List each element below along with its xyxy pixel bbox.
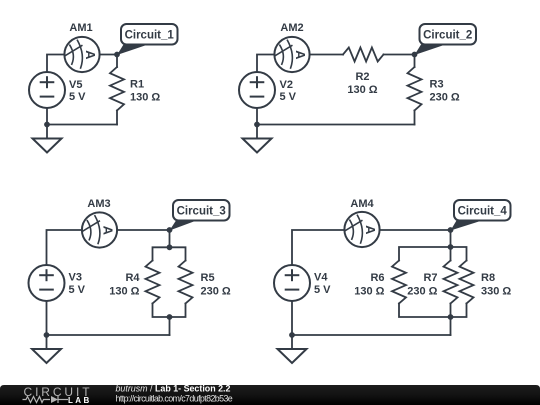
svg-text:A: A [363,225,378,235]
resistor R7 [444,261,458,304]
logo wordmark LAB [68,396,92,405]
svg-text:130 Ω: 130 Ω [354,286,384,298]
svg-text:http://circuitlab.com/c7dufpt8: http://circuitlab.com/c7dufpt82b53e [116,394,233,404]
wire parallel top rail circuit 3 [153,247,186,260]
label R1 130 ohm [130,79,160,104]
ground (circuit 2) [243,139,272,153]
wire AM1 right to node Circuit_1 [100,54,117,56]
wire parallel bottom rail circuit 4 [399,304,467,318]
svg-text:Circuit_2: Circuit_2 [423,30,472,42]
ammeter AM4 [344,212,379,247]
resistor R3 [408,67,422,111]
wire parallel combo down to bottom rail [450,317,452,335]
wire V4 bottom to ground [291,301,293,349]
wire node to R3 top [414,55,416,68]
label Circuit_4 text [458,206,508,218]
wire AM2 right to R2 left [310,54,343,56]
svg-text:R8: R8 [481,272,495,284]
ammeter AM3 letter A [100,226,115,236]
wire V2 bottom to ground junction [256,108,258,139]
svg-text:AM2: AM2 [280,22,303,34]
label V2 5 V [280,79,297,103]
wire node down to parallel top rail [169,230,171,247]
wire V3 bottom to ground [46,301,48,349]
wire parallel top rail circuit 4 [399,247,467,261]
resistor R5 [179,261,193,304]
footer attribution line [116,384,231,394]
wire V4 top to AM4 left [292,230,344,265]
junction dot parallel bottom circuit 4 [448,314,454,320]
wire parallel bottom rail circuit 3 [153,304,186,318]
node Circuit_4 junction dot [448,227,454,233]
resistor R6 [392,261,406,304]
svg-text:V4: V4 [314,272,328,284]
voltage source V2 [239,72,275,108]
junction dot parallel top circuit 3 [167,244,173,250]
wire AM3 right to node Circuit_3 [117,229,169,231]
svg-text:130 Ω: 130 Ω [347,84,377,96]
svg-text:5 V: 5 V [69,91,86,103]
svg-text:V5: V5 [69,79,82,91]
CircuitLab logo wordmark CIRCUIT [24,385,93,399]
junction dot V5-ground [44,122,50,128]
svg-text:A: A [100,226,115,236]
ammeter AM1 letter A [83,50,98,60]
svg-text:130 Ω: 130 Ω [130,92,160,104]
label R3 230 ohm [430,79,460,104]
logo resistor-diode squiggle [23,396,69,403]
svg-text:Circuit_1: Circuit_1 [125,30,175,42]
svg-text:R6: R6 [370,272,384,284]
junction dot V4-ground [289,332,295,338]
svg-text:330 Ω: 330 Ω [481,286,511,298]
wire V3 top to AM3 left [47,230,82,265]
label AM3 [87,198,110,210]
svg-text:R7: R7 [423,272,437,284]
svg-text:V3: V3 [69,272,82,284]
ammeter AM3 [82,212,117,247]
wire bottom rail circuit 1 [47,124,117,126]
wire R7 top lead [450,247,452,261]
node label callout Circuit_2 [415,24,477,55]
svg-text:V2: V2 [280,79,293,91]
wire node to R1 top [116,55,118,68]
label R7 230 ohm [407,272,437,298]
footer bar [0,385,540,405]
resistor R8 [460,261,474,304]
label R2 130 ohm [347,71,377,96]
svg-text:AM3: AM3 [87,198,110,210]
wire V5 bottom to ground junction [46,108,48,139]
label V3 5 V [69,272,86,297]
wire R1 bottom to bottom rail [116,111,118,125]
node label callout Circuit_4 [451,200,511,231]
wire bottom rail circuit 3 [47,334,170,336]
svg-text:Circuit_4: Circuit_4 [458,206,508,218]
svg-text:R3: R3 [430,79,444,91]
wire V2 top to AM2 left [257,55,274,73]
ground (circuit 3) [32,349,61,363]
svg-text:AM1: AM1 [69,22,92,34]
ammeter AM2 letter A [293,50,308,60]
voltage source V4 [274,265,310,301]
voltage source V3 [29,265,65,301]
svg-text:A: A [293,50,308,60]
node Circuit_1 junction dot [114,52,120,58]
footer url line [116,394,233,404]
junction dot V3-ground [44,332,50,338]
svg-text:230 Ω: 230 Ω [407,286,437,298]
svg-text:LAB: LAB [68,396,92,405]
svg-text:230 Ω: 230 Ω [201,286,231,298]
svg-text:R4: R4 [125,272,140,284]
node label callout Circuit_1 [117,24,178,55]
node Circuit_2 junction dot [412,52,418,58]
label R6 130 ohm [354,272,384,298]
wire parallel combo down to bottom rail [169,317,171,335]
label R8 330 ohm [481,272,511,298]
resistor R4 [146,261,160,304]
label Circuit_2 text [423,30,472,42]
svg-text:5 V: 5 V [314,284,331,296]
svg-text:R2: R2 [355,71,369,83]
svg-text:5 V: 5 V [69,284,86,296]
svg-text:130 Ω: 130 Ω [109,286,139,298]
resistor R1 [110,67,124,111]
wire bottom rail circuit 4 [292,334,451,336]
svg-text:Circuit_3: Circuit_3 [177,206,226,218]
label AM4 [350,198,374,210]
junction dot parallel top circuit 4 [448,244,454,250]
label R5 230 ohm [201,272,231,298]
junction dot parallel bottom circuit 3 [167,314,173,320]
ammeter AM4 letter A [363,225,378,235]
svg-text:230 Ω: 230 Ω [430,92,460,104]
label V5 5 V [69,79,86,103]
wire V5 top to AM1 left [47,55,64,73]
wire R2 right to node Circuit_2 [384,54,415,56]
wire bottom rail circuit 2 [257,124,415,126]
svg-text:R5: R5 [201,272,215,284]
svg-text:AM4: AM4 [350,198,374,210]
ammeter AM1 [64,37,99,72]
wire R3 bottom to bottom rail [414,111,416,125]
node label callout Circuit_3 [170,200,230,231]
ground (circuit 1) [33,139,62,153]
resistor R2 [343,48,384,62]
label Circuit_3 text [177,206,226,218]
node Circuit_3 junction dot [167,227,173,233]
label AM1 [69,22,92,34]
svg-text:A: A [83,50,98,60]
ammeter AM2 [274,37,309,72]
ground (circuit 4) [278,349,307,363]
label R4 130 ohm [109,272,140,298]
junction dot V2-ground [254,122,260,128]
wire AM4 right to node Circuit_4 [380,229,451,231]
svg-text:butrusm / Lab 1- Section 2.2: butrusm / Lab 1- Section 2.2 [116,384,231,394]
wire node down to parallel top rail [450,230,452,247]
label Circuit_1 text [125,30,175,42]
svg-text:R1: R1 [130,79,144,91]
voltage source V5 [29,72,65,108]
svg-text:5 V: 5 V [280,91,297,103]
label V4 5 V [314,272,331,297]
wire R7 bottom lead [450,304,452,318]
label AM2 [280,22,303,34]
